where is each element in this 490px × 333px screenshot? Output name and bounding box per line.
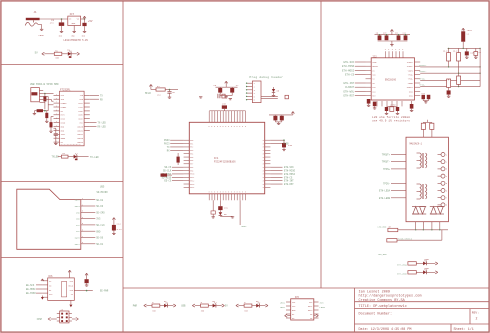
svg-text:VBUS: VBUS <box>241 225 247 228</box>
wire jack to ground <box>38 25 42 30</box>
IC5 right labels <box>320 302 326 309</box>
svg-text:ETH-MISO: ETH-MISO <box>342 65 355 68</box>
FT232RL IC4 <box>60 88 85 145</box>
ground below resonator <box>229 99 232 100</box>
svg-text:2: 2 <box>476 316 478 320</box>
divider under USB block <box>2 181 124 183</box>
capacitor C12 <box>403 32 408 41</box>
svg-text:PWR: PWR <box>133 305 138 308</box>
svg-text:TPOUT-: TPOUT- <box>382 161 390 164</box>
svg-text:R: R <box>263 177 264 179</box>
svg-text:OSC2: OSC2 <box>409 96 413 98</box>
arrow left of header <box>37 318 57 321</box>
svg-text:7: 7 <box>56 137 57 139</box>
svg-text:VDDRX: VDDRX <box>408 83 414 85</box>
IC5 right pins <box>314 302 319 318</box>
svg-text:4: 4 <box>446 176 447 178</box>
svg-text:GND: GND <box>96 230 101 233</box>
PIC right labels VUSB <box>270 143 289 146</box>
svg-text:ETH-LEDA: ETH-LEDA <box>379 190 391 193</box>
svg-text:SI: SI <box>71 293 73 296</box>
svg-text:7: 7 <box>56 102 57 104</box>
svg-text:LED_GND: LED_GND <box>378 253 387 256</box>
svg-text:RJ45-SHIELD: RJ45-SHIELD <box>398 237 412 240</box>
svg-text:R: R <box>263 170 264 172</box>
svg-text:GND: GND <box>72 36 75 38</box>
ENC right pin stubs <box>415 62 421 96</box>
ENC28J60 IC2 <box>371 55 414 100</box>
svg-text:1: 1 <box>56 129 57 131</box>
svg-text:6: 6 <box>237 126 238 128</box>
magjack bottom wires <box>416 222 440 230</box>
svg-text:TPOUT-: TPOUT- <box>407 66 413 68</box>
PIC left net labels top <box>164 139 184 152</box>
svg-text:CLKOUT: CLKOUT <box>345 86 355 89</box>
TX-LED net label <box>90 156 99 159</box>
svg-text:3: 3 <box>392 49 393 51</box>
ground below C4 <box>54 143 57 144</box>
svg-text:7: 7 <box>82 236 83 238</box>
svg-text:R: R <box>263 143 264 145</box>
svg-text:R: R <box>263 180 264 182</box>
wire D9 to ground <box>220 216 232 217</box>
svg-text:RP7: RP7 <box>190 164 193 166</box>
svg-text:R: R <box>263 140 264 142</box>
+3V3 arrow at MCLR <box>149 84 152 89</box>
svg-text:ETH-LEDB: ETH-LEDB <box>397 272 407 275</box>
svg-text:1: 1 <box>56 94 57 96</box>
USB connector J2 <box>31 88 43 103</box>
svg-text:Document Number:: Document Number: <box>359 311 393 316</box>
ground left of C3 <box>33 111 36 115</box>
svg-text:1: 1 <box>56 117 57 119</box>
capacitor C21 <box>447 90 451 96</box>
svg-text:RBIAS: RBIAS <box>372 65 377 68</box>
svg-text:ETH-MOSI: ETH-MOSI <box>342 69 355 72</box>
wire CBUS2 with label <box>90 126 107 129</box>
PIC top pin bus <box>209 110 245 112</box>
svg-text:LEDA: LEDA <box>320 306 326 309</box>
ferrite L2 <box>461 28 472 48</box>
title block date text <box>359 327 412 332</box>
resistor R1 <box>54 49 62 59</box>
svg-text:C22: C22 <box>422 92 425 95</box>
svg-text:R: R <box>263 157 264 159</box>
svg-text:4: 4 <box>82 217 83 219</box>
svg-text:C15: C15 <box>288 144 293 147</box>
ferrite bead FB1 <box>43 94 46 110</box>
ethernet magjack J5 <box>406 137 448 222</box>
5V net label row2 <box>35 52 39 55</box>
svg-text:OSCI: OSCI <box>61 118 66 121</box>
svg-text:IC1: IC1 <box>214 157 219 160</box>
divider line between middle column and right column <box>320 2 322 289</box>
resistor R10 horizontal <box>161 174 173 177</box>
svg-text:VI: VI <box>69 17 71 20</box>
junction at C1 <box>61 18 63 20</box>
svg-text:SD-D1: SD-D1 <box>96 243 104 246</box>
svg-text:4: 4 <box>56 98 57 100</box>
svg-text:LED2: LED2 <box>280 306 286 309</box>
arrow right of D1 <box>77 52 80 55</box>
capacitor C14 <box>112 222 122 233</box>
svg-text:ETH-SCK: ETH-SCK <box>343 61 354 64</box>
wire EE-MOSI with label <box>26 288 42 291</box>
divider under microSD block <box>2 257 124 259</box>
svg-text:RP8: RP8 <box>190 167 193 169</box>
svg-text:TPIN-: TPIN- <box>408 79 413 81</box>
svg-text:3: 3 <box>237 192 238 194</box>
ground below C15 <box>282 150 285 151</box>
svg-text:8: 8 <box>446 205 447 207</box>
PIC right pin stubs <box>263 140 271 189</box>
title block document number text <box>359 311 393 316</box>
capacitor C18 <box>367 99 371 105</box>
svg-text:SD-CLK: SD-CLK <box>96 224 105 227</box>
svg-text:1: 1 <box>56 141 57 143</box>
arrow on IC6 pin1 <box>41 279 44 281</box>
resistor R9 vertical <box>177 153 180 165</box>
ENC left pin stubs <box>366 62 372 96</box>
wire USB D- to IC <box>43 97 48 111</box>
wire EE-MISO with label <box>26 292 42 295</box>
svg-text:5V: 5V <box>35 52 39 55</box>
svg-text:TPOUT+: TPOUT+ <box>407 62 413 64</box>
ENC left pin names <box>372 61 377 98</box>
title block sheet text <box>454 327 474 332</box>
PIC left pin stubs <box>184 140 195 189</box>
svg-text:3: 3 <box>225 192 226 194</box>
capacitor C31 <box>218 206 228 212</box>
svg-text:EE-MOSI: EE-MOSI <box>26 288 36 291</box>
svg-text:REV:: REV: <box>472 312 479 315</box>
wire VBUS to FT232 <box>43 93 53 95</box>
microSD card holder U$5 <box>17 185 108 249</box>
ground below C8b <box>474 57 477 58</box>
USB connector label <box>30 83 59 86</box>
microSD pin wires and labels <box>75 198 105 246</box>
svg-text:RX-LED: RX-LED <box>98 126 107 129</box>
svg-text:Prog debug header: Prog debug header <box>250 75 284 79</box>
svg-text:1: 1 <box>446 154 447 156</box>
svg-text:7: 7 <box>446 198 447 200</box>
svg-text:RP1: RP1 <box>190 143 193 145</box>
wire D2 out <box>77 156 89 158</box>
ground below C2 <box>82 31 86 37</box>
svg-text:TX-LED: TX-LED <box>98 122 107 125</box>
wire TPOUT+ long <box>419 64 481 68</box>
svg-text:49.9: 49.9 <box>453 51 457 53</box>
svg-text:6: 6 <box>225 126 226 128</box>
svg-text:6: 6 <box>214 126 215 128</box>
svg-text:IC7: IC7 <box>70 13 75 16</box>
svg-text:0.1u: 0.1u <box>117 228 123 231</box>
svg-text:OUT2: OUT2 <box>308 309 313 312</box>
svg-text:13: 13 <box>67 144 69 146</box>
svg-text:6: 6 <box>242 126 243 128</box>
svg-text:PGND: PGND <box>39 34 45 37</box>
svg-text:EE-SCK: EE-SCK <box>26 284 35 287</box>
svg-text:RP12: RP12 <box>190 180 194 182</box>
title block author text <box>359 290 391 294</box>
svg-text:TPOUT+: TPOUT+ <box>419 64 427 67</box>
ICSP header J3 <box>60 308 69 323</box>
IC6 left pin stubs <box>42 281 47 297</box>
title block TITLE text <box>359 304 407 309</box>
termination parts above magjack <box>421 120 434 137</box>
+3V3 arrow at C13 <box>85 273 88 279</box>
svg-text:3: 3 <box>220 192 221 194</box>
svg-text:3: 3 <box>242 192 243 194</box>
svg-text:14: 14 <box>70 144 72 146</box>
svg-text:LED1: LED1 <box>280 302 286 305</box>
wire TPOUT- long <box>419 70 481 74</box>
svg-text:RP0: RP0 <box>190 140 193 142</box>
ground below C5 <box>168 97 171 98</box>
svg-text:SD-MICRO: SD-MICRO <box>97 191 109 194</box>
resistor R13 <box>378 225 398 231</box>
svg-text:DAT3: DAT3 <box>75 205 81 208</box>
wire EE-SCK with label <box>26 284 42 287</box>
svg-text:7: 7 <box>56 113 57 115</box>
+3V3 arrow right of PIC top <box>269 112 294 115</box>
svg-text:SD-D3: SD-D3 <box>96 205 104 208</box>
resistor R11 vertical <box>447 79 451 90</box>
svg-text:DAT2: DAT2 <box>75 199 81 202</box>
svg-text:CBUS2: CBUS2 <box>77 133 83 136</box>
capacitor C7 <box>230 84 239 96</box>
resistor R6 vertical <box>453 48 461 73</box>
svg-text:3: 3 <box>385 49 386 51</box>
svg-text:6: 6 <box>245 126 246 128</box>
EEPROM IC6 <box>48 275 75 301</box>
ground right below PIC <box>231 217 234 218</box>
svg-text:R: R <box>263 174 264 176</box>
FT232 left pin names <box>61 94 68 144</box>
ground below C14 <box>112 233 115 234</box>
svg-text:Creative Commons BY-SA: Creative Commons BY-SA <box>359 298 406 303</box>
indicator LED circuit D3 <box>133 300 176 312</box>
wire RXD with label <box>90 98 104 101</box>
svg-text:16: 16 <box>76 144 78 146</box>
resistor R3 vertical <box>45 111 48 122</box>
small part right of prog header <box>285 95 289 99</box>
magjack pin circles <box>438 153 448 207</box>
svg-text:VCAP: VCAP <box>372 61 376 64</box>
arrow right of IC5 <box>314 314 319 317</box>
svg-text:1: 1 <box>82 198 83 200</box>
svg-text:GND: GND <box>59 36 62 38</box>
capacitor C15 <box>282 143 293 150</box>
svg-text:6: 6 <box>211 126 212 128</box>
arrow left of IC5 <box>285 314 291 317</box>
capacitor C8b <box>474 48 482 57</box>
svg-text:ETH-INT: ETH-INT <box>343 82 354 85</box>
svg-text:R: R <box>263 147 264 149</box>
svg-text:4: 4 <box>56 121 57 123</box>
svg-text:ICSP: ICSP <box>37 318 43 321</box>
title block outline <box>355 288 489 332</box>
+3V3 arrow at C6 C7 <box>225 81 228 87</box>
svg-text:R: R <box>263 184 264 186</box>
ground below C18 <box>367 105 370 106</box>
svg-text:3: 3 <box>388 49 389 51</box>
svg-text:CBUS0: CBUS0 <box>77 125 84 128</box>
ground below D8 <box>272 95 275 96</box>
svg-text:CBUS1: CBUS1 <box>77 129 84 132</box>
svg-text:Date: 12/3/2009 4:35:08 PM: Date: 12/3/2009 4:35:08 PM <box>359 327 412 332</box>
power jack J1 <box>25 11 39 26</box>
svg-text:RP10: RP10 <box>190 174 194 176</box>
capacitor C19 <box>373 102 377 108</box>
svg-text:6: 6 <box>228 126 229 128</box>
shield bus wire <box>398 229 448 230</box>
svg-text:USBDM: USBDM <box>61 102 68 105</box>
resistor R14 <box>378 230 442 256</box>
svg-text:RP9: RP9 <box>190 170 193 172</box>
ground left of resonator <box>199 97 202 98</box>
svg-text:6: 6 <box>82 230 83 232</box>
ground below C19 <box>373 108 376 109</box>
svg-text:5: 5 <box>446 183 447 185</box>
capacitor C5 <box>167 90 175 98</box>
svg-text:MAGJACK-1: MAGJACK-1 <box>410 142 423 145</box>
IC5 left labels <box>280 302 286 309</box>
ground below C1 <box>59 31 63 37</box>
TXLED indicator label <box>52 156 60 159</box>
wire D1 to arrow <box>71 53 77 55</box>
resistor R4 vertical <box>50 120 53 131</box>
ground below C21 <box>447 96 450 97</box>
svg-text:6: 6 <box>223 126 224 128</box>
svg-text:R: R <box>263 160 264 162</box>
svg-text:use 49.9 1% resistors: use 49.9 1% resistors <box>372 119 410 123</box>
magjack transformer T2 coils <box>417 184 427 199</box>
svg-text:TPIN+: TPIN+ <box>419 77 426 80</box>
wires right of prog header <box>261 97 278 99</box>
svg-text:ETH-WOL: ETH-WOL <box>343 90 354 93</box>
svg-text:RP14: RP14 <box>190 187 194 189</box>
svg-text:3: 3 <box>209 192 210 194</box>
title block url text <box>359 294 422 299</box>
svg-text:4: 4 <box>56 133 57 135</box>
svg-text:MCLR: MCLR <box>145 92 151 95</box>
svg-text:ENC28J60: ENC28J60 <box>385 79 397 82</box>
ground below C8 <box>465 57 468 58</box>
IC6 internal pin names <box>49 280 74 296</box>
svg-text:2: 2 <box>82 204 83 206</box>
svg-text:3: 3 <box>214 192 215 194</box>
svg-text:3: 3 <box>231 192 232 194</box>
ground arrow on IC6 pin5 <box>41 296 44 300</box>
svg-text:SO: SO <box>372 83 374 85</box>
svg-text:3: 3 <box>217 192 218 194</box>
svg-text:CBUS4: CBUS4 <box>77 141 84 144</box>
header right pins <box>69 314 72 321</box>
svg-text:TPIN+: TPIN+ <box>408 75 413 77</box>
capacitor C8 <box>465 48 475 57</box>
capacitor C2 <box>82 19 86 31</box>
arrow right of header <box>72 318 79 321</box>
svg-text:C14: C14 <box>117 222 122 225</box>
svg-text:R: R <box>263 164 264 166</box>
svg-text:17: 17 <box>79 144 81 146</box>
svg-text:3: 3 <box>245 192 246 194</box>
svg-text:7: 7 <box>56 125 57 127</box>
svg-text:R: R <box>263 153 264 155</box>
svg-text:6: 6 <box>217 126 218 128</box>
ground below cap bank <box>390 41 393 46</box>
svg-text:TX-LED: TX-LED <box>90 156 99 159</box>
regulator part number text <box>64 39 89 42</box>
svg-text:PIC24FJ256GB106: PIC24FJ256GB106 <box>214 161 236 164</box>
prog header J4 <box>252 81 261 103</box>
supply rail right <box>448 48 481 49</box>
TVS diode pair D11 <box>430 207 444 214</box>
svg-text:3: 3 <box>234 192 235 194</box>
PIC top pin stubs <box>209 111 246 128</box>
svg-text:R: R <box>263 187 264 189</box>
FT232 bottom pin numbers <box>61 144 81 146</box>
svg-text:USB MINI-B 5PIN SMD: USB MINI-B 5PIN SMD <box>30 83 59 86</box>
ETH LEDA circuit <box>397 258 438 266</box>
magjack transformer T1 coils <box>417 153 427 168</box>
ground below crystal left <box>385 111 388 115</box>
ground below C6 C7 <box>220 96 232 99</box>
resistor R5 vertical <box>443 48 451 67</box>
header left pins <box>57 314 60 321</box>
wire IC6 right to label <box>74 290 109 293</box>
svg-text:3: 3 <box>223 192 224 194</box>
ground below PIC wire <box>212 217 215 218</box>
svg-text:EE-PWR: EE-PWR <box>100 290 109 293</box>
FT232 left pin stubs <box>54 94 60 143</box>
wire to R2 <box>58 156 62 158</box>
LED D2 <box>74 153 78 160</box>
svg-text:4: 4 <box>56 110 57 112</box>
svg-text:2: 2 <box>446 162 447 164</box>
resistor R7 <box>151 85 165 97</box>
svg-text:DAT1: DAT1 <box>75 243 81 246</box>
svg-text:3: 3 <box>395 49 396 51</box>
VCAP capacitor C30 <box>222 103 227 111</box>
capacitor C16b <box>410 101 414 110</box>
svg-text:TPIN-: TPIN- <box>383 182 390 185</box>
svg-text:RP5: RP5 <box>190 157 193 159</box>
indicator LED circuit D5 <box>181 300 224 312</box>
svg-text:VDDPLL: VDDPLL <box>407 87 413 89</box>
svg-text:L20 ohm ferrite 200mA: L20 ohm ferrite 200mA <box>372 115 410 119</box>
prog header pin stubs <box>246 82 256 102</box>
capacitor C3 <box>34 109 48 112</box>
svg-text:OSC1: OSC1 <box>409 91 413 93</box>
svg-text:USBDP: USBDP <box>61 106 68 109</box>
MCLR net label <box>145 92 151 95</box>
svg-text:ETH-RST: ETH-RST <box>284 183 294 186</box>
zener D9 <box>219 212 228 216</box>
svg-text:3: 3 <box>402 49 403 51</box>
resistor note text <box>372 119 410 123</box>
ground below R4 <box>49 131 52 132</box>
svg-text:ETH-LEDB: ETH-LEDB <box>379 197 391 200</box>
wire TPIN+ long <box>419 77 480 81</box>
PIC right wire C15 <box>270 139 284 143</box>
PIC right ETH labels <box>270 166 295 186</box>
svg-text:6: 6 <box>209 126 210 128</box>
svg-text:RP11: RP11 <box>190 177 194 179</box>
ground below C16 C17 <box>277 123 280 124</box>
svg-text:J1: J1 <box>34 11 38 14</box>
